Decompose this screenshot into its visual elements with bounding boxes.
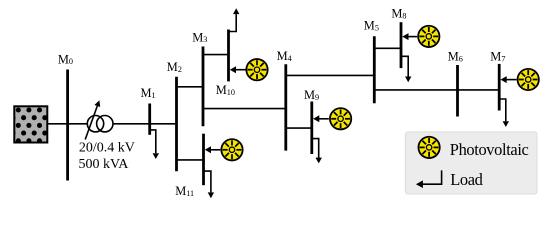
wire M3 to M10 xyxy=(203,54,229,56)
svg-text:M9: M9 xyxy=(304,88,319,102)
svg-text:M6: M6 xyxy=(448,49,463,63)
svg-text:M0: M0 xyxy=(58,52,73,66)
bus M9 xyxy=(310,102,313,155)
bus M1 xyxy=(148,104,151,135)
load at M10 xyxy=(229,8,240,31)
svg-text:M2: M2 xyxy=(167,60,182,74)
svg-text:Photovoltaic: Photovoltaic xyxy=(450,140,529,159)
bus M6 xyxy=(456,65,459,117)
load at M1 xyxy=(150,130,159,159)
load at M7 xyxy=(499,99,509,127)
wire M2 to M3 xyxy=(177,86,204,88)
bus M10 xyxy=(227,30,230,82)
photovoltaic PV at M10 xyxy=(246,59,267,80)
PV arrow to M8 xyxy=(402,33,417,40)
svg-text:M11: M11 xyxy=(175,184,194,198)
svg-text:M10: M10 xyxy=(216,83,235,97)
wire M2 to M11 xyxy=(177,159,204,161)
svg-text:M5: M5 xyxy=(364,19,379,33)
bus M0 xyxy=(66,70,69,181)
legend photovoltaic symbol xyxy=(418,137,439,158)
bus M7 xyxy=(498,64,501,111)
svg-text:20/0.4 kV: 20/0.4 kV xyxy=(79,140,135,155)
bus M11 xyxy=(202,134,205,186)
svg-text:M7: M7 xyxy=(490,50,505,64)
photovoltaic PV at M11 xyxy=(221,139,242,160)
bus M2 xyxy=(175,77,178,171)
bus M8 xyxy=(400,22,403,68)
photovoltaic PV at M7 xyxy=(518,69,539,90)
bus M5 xyxy=(373,36,376,103)
wire M5 to M8 xyxy=(374,47,401,49)
load at M9 xyxy=(312,139,322,164)
PV arrow to M7 xyxy=(501,76,517,83)
wire main feeder square to M2 xyxy=(48,123,177,125)
PV arrow to M11 xyxy=(205,146,221,153)
legend box xyxy=(405,132,537,194)
transformer T1 20/0.4 kV xyxy=(85,100,113,139)
legend load symbol xyxy=(416,170,442,188)
svg-text:500 kVA: 500 kVA xyxy=(79,157,130,172)
svg-text:M8: M8 xyxy=(391,7,406,21)
wire M4 to M5 feeder xyxy=(286,74,375,76)
PV arrow to M9 xyxy=(313,115,329,122)
wire M4 to M9 xyxy=(286,127,312,129)
svg-text:M3: M3 xyxy=(192,30,207,44)
bus M4 xyxy=(284,64,287,150)
load at M8 xyxy=(401,56,411,82)
load at M11 xyxy=(204,171,215,198)
PV arrow to M10 xyxy=(230,66,246,73)
bus M3 xyxy=(202,47,205,127)
svg-text:M1: M1 xyxy=(141,86,156,100)
svg-text:M4: M4 xyxy=(277,49,292,63)
external grid square xyxy=(10,106,52,143)
photovoltaic PV at M8 xyxy=(418,26,439,47)
wire M3 to M4 feeder xyxy=(203,108,286,110)
svg-text:Load: Load xyxy=(450,170,482,189)
photovoltaic PV at M9 xyxy=(330,108,351,129)
wire M5 to M7 feeder xyxy=(374,89,499,91)
